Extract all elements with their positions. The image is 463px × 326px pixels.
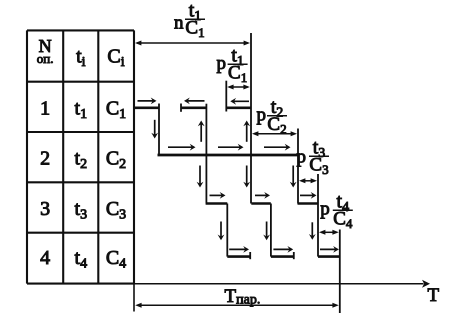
svg-text:2: 2 <box>40 148 50 170</box>
svg-text:p: p <box>257 105 267 126</box>
svg-text:T: T <box>428 285 440 306</box>
svg-text:p: p <box>320 199 330 220</box>
svg-text:n: n <box>174 13 184 34</box>
svg-text:4: 4 <box>40 247 50 269</box>
svg-text:3: 3 <box>40 198 50 220</box>
svg-text:p: p <box>217 53 227 74</box>
svg-text:1: 1 <box>40 97 50 119</box>
svg-text:оп.: оп. <box>37 51 54 66</box>
svg-text:p: p <box>297 146 307 167</box>
